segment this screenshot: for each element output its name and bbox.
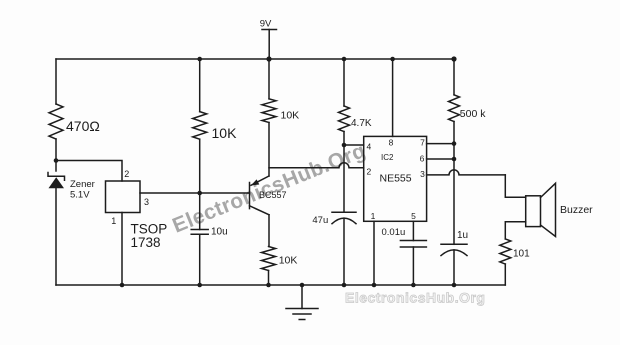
svg-text:4: 4 <box>367 141 372 151</box>
wire col5 upper <box>453 59 455 95</box>
wire TSOP pin3 to base <box>140 192 250 194</box>
capacitor C3 0.01u <box>382 227 427 247</box>
node C4 rail <box>452 283 457 288</box>
capacitor C2 47u <box>312 212 356 226</box>
resistor R7 101 <box>500 239 511 264</box>
svg-text:1: 1 <box>371 211 376 221</box>
wire R3 to emitter <box>268 123 270 177</box>
wire C4 to rail <box>453 250 455 285</box>
wire top rail <box>56 58 454 60</box>
wire R7 to rail <box>504 264 506 285</box>
resistor R2 10K <box>193 112 207 140</box>
svg-text:IC2: IC2 <box>381 153 394 162</box>
wire R4 to rail <box>268 271 270 286</box>
wire pin6 <box>427 158 454 160</box>
svg-text:4.7K: 4.7K <box>351 118 372 129</box>
wire C1 to rail <box>199 234 201 285</box>
svg-text:1738: 1738 <box>131 235 161 250</box>
node rail end top right <box>451 56 456 61</box>
wire collector down <box>268 215 270 247</box>
node C2 rail <box>342 283 347 288</box>
node pin4 branch <box>342 143 347 148</box>
node C1 rail <box>197 283 202 288</box>
node base line junction <box>197 191 202 196</box>
svg-text:5: 5 <box>411 211 416 221</box>
svg-text:2: 2 <box>367 166 372 176</box>
svg-text:7: 7 <box>420 138 425 148</box>
node pin1 rail <box>372 283 377 288</box>
resistor R5 4.7K <box>339 106 350 132</box>
transistor Q1 BC557 <box>250 176 287 215</box>
node R4 rail <box>266 283 271 288</box>
resistor R1 470ohm <box>49 104 63 139</box>
wire left column upper <box>55 59 57 104</box>
node zener junction <box>54 158 59 163</box>
wire pin7 <box>427 143 454 145</box>
wire col3 upper <box>268 59 270 99</box>
svg-text:Zener: Zener <box>70 179 95 190</box>
svg-text:101: 101 <box>513 249 530 260</box>
wire zener node to TSOP pin2 <box>56 161 122 182</box>
svg-text:10u: 10u <box>211 227 228 238</box>
svg-text:1: 1 <box>111 216 116 226</box>
wire col2 upper <box>199 59 201 112</box>
node rail col2 top <box>197 57 202 62</box>
svg-text:47u: 47u <box>312 215 328 226</box>
svg-text:5.1V: 5.1V <box>70 190 90 201</box>
wire C3 to rail <box>412 247 414 285</box>
node pin6 junction <box>452 157 457 162</box>
wire C2 to rail <box>343 218 345 285</box>
wire pin3 with hop <box>427 170 506 175</box>
wire pin4 <box>344 144 364 146</box>
svg-text:10K: 10K <box>212 125 238 141</box>
node rail col4 top <box>342 57 347 62</box>
node rail col3 top 9V junction <box>266 56 271 61</box>
wire pin8 <box>392 59 394 136</box>
wire zener to bottom rail <box>55 188 57 285</box>
wire pin3 to buzzer top <box>505 175 525 197</box>
wire 470 to zener node <box>55 139 57 161</box>
svg-text:NE555: NE555 <box>380 172 412 184</box>
wire pin5 to cap <box>412 221 414 240</box>
wire R5 down to cap <box>343 132 345 213</box>
wire bottom rail <box>56 284 505 286</box>
node ground rail <box>300 283 305 288</box>
svg-text:9V: 9V <box>260 19 272 30</box>
svg-text:ElectronicsHub.Org: ElectronicsHub.Org <box>345 290 485 306</box>
zener diode D1 5.1V <box>48 173 95 201</box>
svg-text:2: 2 <box>124 169 129 179</box>
svg-text:470Ω: 470Ω <box>66 118 100 134</box>
svg-text:6: 6 <box>420 153 425 163</box>
svg-text:BC557: BC557 <box>259 190 287 200</box>
resistor R3 10K <box>262 99 276 123</box>
svg-text:8: 8 <box>389 138 394 148</box>
node C3 rail <box>411 283 416 288</box>
svg-text:500 k: 500 k <box>460 108 486 120</box>
wire buzzer bottom to R7 <box>505 222 525 239</box>
svg-text:Buzzer: Buzzer <box>560 204 593 216</box>
capacitor C1 10u <box>191 227 227 238</box>
wire col4 upper <box>343 59 345 106</box>
wire TSOP pin1 to rail <box>121 213 123 286</box>
svg-text:0.01u: 0.01u <box>382 227 406 238</box>
wire pin1 to rail <box>373 221 375 285</box>
svg-text:10K: 10K <box>281 109 300 121</box>
ground <box>286 285 318 320</box>
node rail pin8 top <box>390 57 395 62</box>
wire R6 down through pins to cap <box>453 122 455 245</box>
9V supply <box>260 19 277 60</box>
wire emitter node to IC pin2 with hop <box>269 163 364 168</box>
capacitor C4 1u <box>441 230 468 255</box>
resistor R4 10K <box>262 247 276 271</box>
svg-text:10K: 10K <box>279 254 298 266</box>
wire node to zener <box>55 161 57 172</box>
svg-text:3: 3 <box>420 169 425 179</box>
svg-text:1u: 1u <box>457 230 468 241</box>
node TSOP pin1 rail <box>120 283 125 288</box>
resistor R6 500k <box>449 95 460 122</box>
op-amp U2 NE555 box <box>364 136 427 221</box>
svg-text:3: 3 <box>144 197 149 207</box>
buzzer LS1 <box>526 183 593 236</box>
node pin7 junction <box>452 141 457 146</box>
TSOP 1738 box U1 <box>106 181 141 213</box>
wire R2 to node <box>199 139 201 229</box>
